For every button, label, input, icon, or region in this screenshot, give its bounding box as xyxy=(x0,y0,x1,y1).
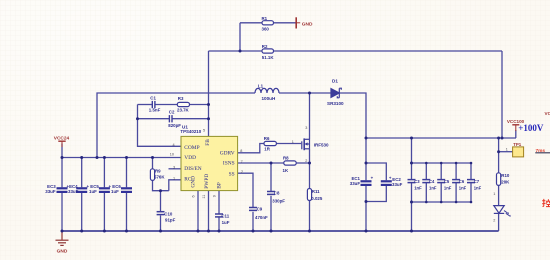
junction (208.5,118.7) xyxy=(207,117,210,120)
wire C6 leads xyxy=(455,163,457,202)
wire C11 bottom xyxy=(218,217,220,231)
wire EC3 bottom xyxy=(61,193,63,231)
svg-text:1uF: 1uF xyxy=(222,220,230,225)
wire FB vertical xyxy=(208,51,210,136)
junction (62,157.5) xyxy=(61,156,64,159)
svg-text:2: 2 xyxy=(241,170,243,174)
svg-text:20K: 20K xyxy=(501,180,510,185)
svg-text:DIS/EN: DIS/EN xyxy=(184,166,201,172)
svg-text:100uH: 100uH xyxy=(262,96,276,101)
svg-text:1: 1 xyxy=(292,140,294,144)
wire C2 left xyxy=(138,118,170,120)
wire R2 left xyxy=(209,50,263,52)
svg-text:330pF: 330pF xyxy=(272,199,285,204)
junction (198,231) xyxy=(197,230,200,233)
junction (502,138) xyxy=(501,137,504,140)
svg-text:VCC24: VCC24 xyxy=(54,135,70,141)
wire C1 left xyxy=(138,104,152,106)
junction (160.5,190.7) xyxy=(159,189,162,192)
svg-text:R9: R9 xyxy=(155,169,161,174)
capacitor EC6 xyxy=(121,188,132,192)
svg-text:4: 4 xyxy=(173,143,175,147)
resistor R2 xyxy=(262,49,274,53)
ground port GND (top) xyxy=(296,17,300,28)
wire C2 right xyxy=(172,118,208,120)
svg-text:33uF: 33uF xyxy=(350,181,361,186)
wire R2 right xyxy=(274,50,503,52)
junction (160.5,231) xyxy=(159,230,162,233)
wire L1 to D1 xyxy=(279,92,331,94)
wire ISNS to R8 xyxy=(238,162,284,164)
svg-text:C4: C4 xyxy=(429,179,435,184)
inductor L1 xyxy=(255,88,279,93)
junction (426.3,163) xyxy=(425,162,428,165)
svg-text:91pF: 91pF xyxy=(165,218,176,223)
svg-text:1R: 1R xyxy=(264,147,270,152)
wire output vertical xyxy=(501,51,503,138)
svg-text:470nF: 470nF xyxy=(255,215,268,220)
wire EC2 bottom xyxy=(366,186,386,202)
junction (411.5,202) xyxy=(410,201,413,204)
wire TP1 pin xyxy=(499,151,513,153)
wire BP pin to C11 xyxy=(218,191,220,214)
svg-text:SS: SS xyxy=(229,171,235,177)
wire R3 to FB column xyxy=(190,104,209,106)
junction (97,157.5) xyxy=(96,156,99,159)
wire C4 leads xyxy=(425,163,427,202)
resistor R1 xyxy=(262,21,274,25)
junction (471,163) xyxy=(470,162,473,165)
junction (81.7,231) xyxy=(80,230,83,233)
svg-text:IRF530: IRF530 xyxy=(314,142,329,147)
svg-text:0.025: 0.025 xyxy=(311,196,323,201)
capacitor C11 xyxy=(215,214,223,217)
junction (411.5,138) xyxy=(410,137,413,140)
wire R6 to gate xyxy=(276,143,301,145)
junction (126.5,231) xyxy=(125,230,128,233)
svg-text:1.5nF: 1.5nF xyxy=(149,108,161,113)
op-amp U1 TPS40210 body xyxy=(181,136,238,190)
svg-text:C10: C10 xyxy=(164,212,173,217)
svg-text:C2: C2 xyxy=(169,109,175,114)
wire VCC100 stem lower xyxy=(515,130,517,138)
wire R1 left xyxy=(240,22,262,24)
junction (219,231) xyxy=(218,230,221,233)
svg-text:33uF: 33uF xyxy=(392,182,403,187)
junction (366,138) xyxy=(365,137,368,140)
wire VDD rail xyxy=(62,157,181,159)
junction (441.2,163) xyxy=(440,162,443,165)
svg-text:R8: R8 xyxy=(283,156,289,161)
resistor R8 xyxy=(284,161,296,165)
svg-text:6: 6 xyxy=(192,195,196,197)
resistor R3 xyxy=(177,102,189,106)
wire SS to C9 xyxy=(238,173,253,207)
wire C7 leads xyxy=(470,163,472,202)
svg-text:1nF: 1nF xyxy=(474,186,482,191)
junction (456.1,202) xyxy=(455,201,458,204)
wire EC4 bottom xyxy=(81,193,83,231)
wire C8 bottom xyxy=(270,196,272,231)
wire R8 to node xyxy=(296,162,309,164)
junction (441.2,202) xyxy=(440,201,443,204)
wire EC2 branch xyxy=(366,163,386,180)
capacitor EC4 xyxy=(76,188,87,192)
svg-text:51.1K: 51.1K xyxy=(262,55,275,60)
svg-text:R1: R1 xyxy=(262,16,268,21)
svg-text:2: 2 xyxy=(493,219,495,223)
wire GND pin xyxy=(197,191,199,231)
test point TP1 xyxy=(513,147,524,157)
wire RC pin xyxy=(169,180,181,191)
wire L1 feed vertical xyxy=(97,93,255,158)
capacitor C9 xyxy=(249,208,257,211)
wire C3 bank feed xyxy=(411,138,413,179)
svg-text:1K: 1K xyxy=(283,168,289,173)
capacitor C2 xyxy=(169,115,172,122)
svg-text:7: 7 xyxy=(241,160,243,164)
junction (411.5,231) xyxy=(410,230,413,233)
wire D1 cathode to EC1 column xyxy=(340,93,367,180)
junction (411.5,163) xyxy=(410,162,413,165)
capacitor EC5 xyxy=(99,188,110,192)
svg-text:1nF: 1nF xyxy=(429,186,437,191)
junction (240,51) xyxy=(239,50,242,53)
capacitor C3 xyxy=(408,180,416,183)
svg-text:C8: C8 xyxy=(274,191,280,196)
svg-text:820pF: 820pF xyxy=(168,123,181,128)
svg-text:360: 360 xyxy=(262,26,270,31)
svg-text:5: 5 xyxy=(203,128,205,132)
svg-text:1nF: 1nF xyxy=(414,186,422,191)
svg-text:1: 1 xyxy=(493,192,495,196)
junction (62,231) xyxy=(61,230,64,233)
svg-text:FB: FB xyxy=(205,139,211,146)
wire EC6 bottom xyxy=(126,193,128,231)
svg-text:+: + xyxy=(371,176,374,181)
wire output rail xyxy=(366,137,516,139)
svg-text:23.7K: 23.7K xyxy=(177,108,190,113)
junction (366,163) xyxy=(365,162,368,165)
svg-text:C9: C9 xyxy=(257,207,263,212)
svg-text:D1: D1 xyxy=(332,78,338,83)
wire R11 top xyxy=(309,163,311,189)
resistor R6 xyxy=(264,141,276,145)
svg-text:COMP: COMP xyxy=(184,145,199,151)
wire C5 leads xyxy=(440,163,442,202)
svg-text:R11: R11 xyxy=(312,189,320,194)
svg-text:+: + xyxy=(389,176,392,181)
resistor R9 xyxy=(150,169,154,181)
resistor R11 xyxy=(307,189,311,201)
wire VCC24 stem xyxy=(61,144,63,158)
svg-text:1uF: 1uF xyxy=(111,189,119,194)
svg-text:33uF: 33uF xyxy=(68,189,79,194)
wire C9 bottom xyxy=(252,212,254,231)
wire C8 top xyxy=(270,163,272,191)
junction (104.4,157.5) xyxy=(103,156,106,159)
svg-text:+100V: +100V xyxy=(518,123,544,133)
wire DIS-EN stub xyxy=(169,168,182,170)
svg-text:R10: R10 xyxy=(501,173,510,178)
wire EC5 bottom xyxy=(103,193,105,231)
svg-text:1nF: 1nF xyxy=(444,186,452,191)
power port VCC24 xyxy=(58,141,65,147)
junction (271,231) xyxy=(270,230,273,233)
wire drain vertical xyxy=(309,93,311,139)
junction (137.5,118.7) xyxy=(136,117,139,120)
junction (208.5,104.5) xyxy=(207,103,210,106)
wire EC4 top xyxy=(81,158,83,188)
svg-text:ISNS: ISNS xyxy=(223,161,235,167)
wire LED bottom xyxy=(498,214,500,232)
wire C10 bottom xyxy=(160,216,162,232)
junction (366,201.5) xyxy=(365,200,368,203)
svg-text:R2: R2 xyxy=(262,44,268,49)
capacitor C10 xyxy=(157,212,165,215)
wire C3 bottom xyxy=(411,183,413,231)
junction (81.7,157.5) xyxy=(80,156,83,159)
capacitor C1 xyxy=(152,101,155,108)
wire source to node xyxy=(309,149,311,163)
LED D2 xyxy=(494,206,510,216)
diode D1 SR3100 xyxy=(331,88,341,98)
power port VCC100 xyxy=(512,125,519,131)
wire R9 bottom to RC xyxy=(153,180,169,190)
svg-text:33uF: 33uF xyxy=(45,189,56,194)
svg-text:PWPD: PWPD xyxy=(204,174,210,189)
capacitor EC3 xyxy=(57,188,68,192)
wire EC3 top xyxy=(61,158,63,188)
capacitor EC2 xyxy=(381,181,392,185)
svg-text:C6: C6 xyxy=(459,179,465,184)
svg-text:1nF: 1nF xyxy=(459,186,467,191)
svg-text:TPS40210: TPS40210 xyxy=(180,129,201,134)
wire EC1 bottom xyxy=(365,186,367,231)
junction (152.5,157.5) xyxy=(151,156,154,159)
transistor Q1 IRF530 xyxy=(302,138,310,150)
junction (309.5,93) xyxy=(308,92,311,95)
junction (366,231) xyxy=(365,230,368,233)
wire EC5 top xyxy=(103,158,105,188)
svg-text:GND: GND xyxy=(57,248,68,254)
svg-text:VDD: VDD xyxy=(184,155,196,161)
wire COMP network left xyxy=(138,105,182,147)
svg-text:8: 8 xyxy=(240,149,242,153)
wire R11 bottom xyxy=(309,201,311,232)
wire PWPD pin xyxy=(208,191,210,231)
capacitor C8 xyxy=(267,192,275,195)
junction (471,202) xyxy=(470,201,473,204)
svg-text:2: 2 xyxy=(305,159,307,163)
junction (426.3,202) xyxy=(425,201,428,204)
wire C1 to R3 xyxy=(155,104,177,106)
junction (208.5,231) xyxy=(207,230,210,233)
wire R10 to LED xyxy=(498,185,500,205)
svg-text:BP: BP xyxy=(217,182,223,189)
capacitor C6 xyxy=(452,180,460,183)
capacitor EC1 xyxy=(361,181,372,185)
svg-text:C11: C11 xyxy=(221,214,229,219)
svg-text:L1: L1 xyxy=(258,84,264,89)
wire R10 top xyxy=(498,138,500,173)
svg-text:1: 1 xyxy=(173,176,175,180)
text control char xyxy=(542,199,550,207)
ground symbol (left) xyxy=(56,231,69,245)
svg-text:C3: C3 xyxy=(414,179,420,184)
svg-text:10: 10 xyxy=(170,153,174,157)
svg-text:VC: VC xyxy=(545,111,550,116)
capacitor C5 xyxy=(437,180,445,183)
junction (309.5,163) xyxy=(308,162,311,165)
wire cap bank bottom bus xyxy=(412,201,472,203)
svg-text:11: 11 xyxy=(202,195,206,199)
svg-text:C5: C5 xyxy=(444,179,450,184)
junction (253,231) xyxy=(252,230,255,233)
svg-text:C1: C1 xyxy=(150,96,156,101)
wire C10 top xyxy=(160,191,162,212)
svg-text:576K: 576K xyxy=(154,174,165,179)
capacitor C7 xyxy=(467,180,475,183)
junction (271,163) xyxy=(270,162,273,165)
junction (456.1,163) xyxy=(455,162,458,165)
wire R1 to GND port xyxy=(274,22,296,24)
svg-text:TP1: TP1 xyxy=(513,142,522,147)
svg-text:9: 9 xyxy=(212,195,216,197)
svg-text:C7: C7 xyxy=(474,179,480,184)
junction (309.5,231) xyxy=(308,230,311,233)
svg-text:3: 3 xyxy=(173,165,175,169)
wire R1 branch vertical xyxy=(239,23,241,51)
junction (104.4,231) xyxy=(103,230,106,233)
svg-text:GND: GND xyxy=(191,176,197,188)
junction (498.6,138) xyxy=(497,137,500,140)
wire cap bank top bus xyxy=(412,162,472,164)
svg-text:1uF: 1uF xyxy=(89,189,97,194)
resistor R10 xyxy=(497,173,501,186)
junction (498.6,151.7) xyxy=(497,150,500,153)
junction (126.5,157.5) xyxy=(125,156,128,159)
svg-text:SR3100: SR3100 xyxy=(327,101,344,106)
svg-text:R6: R6 xyxy=(264,136,270,141)
wire EC6 top xyxy=(126,158,128,188)
svg-text:1: 1 xyxy=(506,148,508,152)
wire R9 top xyxy=(152,158,154,169)
svg-text:R3: R3 xyxy=(178,96,184,101)
wire ground rail xyxy=(62,230,499,232)
wire GDRV to R6 xyxy=(238,144,264,153)
capacitor C4 xyxy=(422,180,430,183)
svg-text:GND: GND xyxy=(302,21,313,27)
svg-text:GDRV: GDRV xyxy=(220,151,235,157)
svg-text:3: 3 xyxy=(305,126,307,130)
